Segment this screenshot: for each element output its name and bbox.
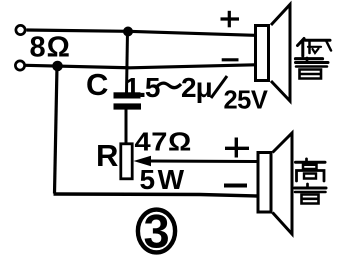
svg-text:25V: 25V bbox=[224, 87, 268, 115]
wire lower (input to woofer -) bbox=[26, 65, 255, 68]
terminal input top bbox=[16, 25, 25, 34]
woofer cone bbox=[271, 5, 290, 102]
wire bottom (to tweeter -) bbox=[54, 194, 259, 196]
label 音 (woofer sound) bbox=[296, 58, 329, 79]
wire arrow (tweeter + to resistor) bbox=[134, 156, 258, 167]
svg-text:R: R bbox=[96, 138, 118, 173]
svg-text:2μ: 2μ bbox=[181, 72, 212, 103]
wire left vertical drop bbox=[55, 66, 58, 194]
label + (woofer) bbox=[221, 11, 240, 28]
label + (tweeter) bbox=[225, 138, 249, 158]
node junction left drop bbox=[52, 61, 63, 72]
label - (tweeter) bbox=[224, 184, 247, 188]
svg-text:1.5: 1.5 bbox=[125, 72, 160, 103]
woofer driver bbox=[256, 26, 269, 81]
label 低 (low) bbox=[296, 39, 332, 59]
tweeter driver bbox=[258, 153, 271, 213]
wire capacitor upper lead bbox=[127, 32, 128, 94]
figure number 3 circled bbox=[138, 205, 175, 257]
value label slash bbox=[211, 76, 227, 98]
svg-text:C: C bbox=[86, 67, 108, 102]
label 高 (high) bbox=[296, 159, 326, 181]
tweeter cone bbox=[273, 133, 293, 234]
svg-text:8Ω: 8Ω bbox=[30, 32, 71, 64]
label - (woofer) bbox=[222, 58, 239, 61]
resistor R body bbox=[121, 144, 132, 179]
svg-text:3: 3 bbox=[144, 205, 170, 257]
svg-text:47Ω: 47Ω bbox=[135, 127, 192, 156]
label 音 (tweeter sound) bbox=[295, 184, 327, 204]
terminal input bottom bbox=[15, 61, 24, 70]
wire top (input to woofer +) bbox=[27, 30, 255, 35]
wire capacitor lower lead bbox=[125, 109, 128, 143]
svg-text:5W: 5W bbox=[140, 164, 187, 195]
node junction capacitor tap bbox=[123, 27, 133, 37]
capacitor C plates bbox=[114, 92, 142, 109]
